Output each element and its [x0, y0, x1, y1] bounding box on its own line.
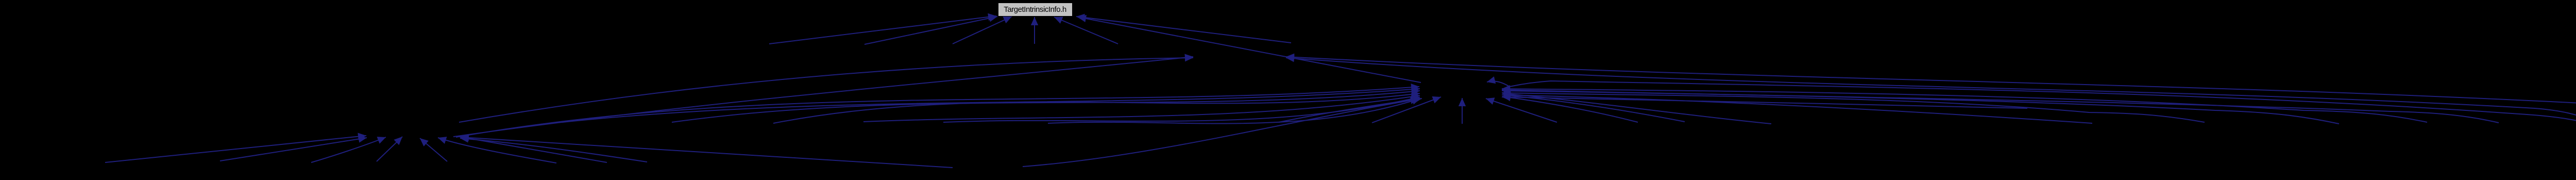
svg-text:TargetIntrinsicInfo.h: TargetIntrinsicInfo.h — [1004, 5, 1066, 14]
